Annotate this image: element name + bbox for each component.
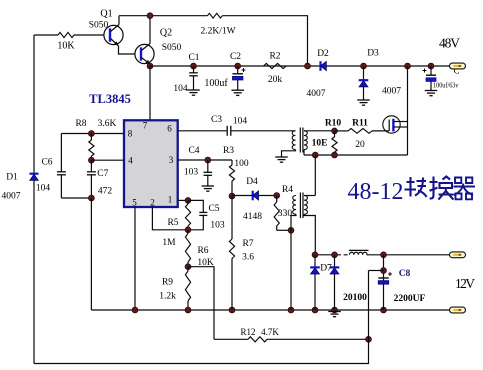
wire MOSFET right down to source line bbox=[407, 122, 409, 156]
svg-text:4: 4 bbox=[128, 156, 133, 166]
capacitor C3 104 bbox=[226, 126, 228, 136]
wire C7 node down to ground bus bbox=[90, 198, 92, 310]
ground D3 bbox=[357, 99, 370, 101]
node pin2 junction bbox=[185, 227, 191, 233]
svg-text:10E: 10E bbox=[312, 139, 328, 149]
capacitor C2 100uf bbox=[237, 66, 239, 74]
wire source line bbox=[304, 154, 408, 156]
ground C2 bbox=[231, 89, 244, 91]
node rail1-Q2 bbox=[147, 13, 153, 19]
svg-text:R2: R2 bbox=[269, 52, 280, 62]
terminal 12V- bbox=[450, 307, 466, 313]
node D7a anode bbox=[312, 307, 318, 313]
wire pin7 supply bbox=[149, 66, 151, 120]
svg-text:D4: D4 bbox=[246, 177, 258, 187]
node R10 top bbox=[332, 128, 338, 134]
wire pin3 (sense) bbox=[178, 159, 232, 161]
node pin4 junction bbox=[89, 157, 95, 163]
wire top rail (Q1/Q2 collectors to R1 to D2 node) bbox=[119, 15, 208, 17]
resistor R1 2.2K/1W bbox=[208, 13, 223, 18]
wire pin6 (out) to C3 bbox=[178, 130, 228, 132]
node C4 junction bbox=[205, 157, 211, 163]
node R6 bottom bbox=[185, 264, 191, 270]
wire ground bus bbox=[91, 309, 451, 311]
svg-text:5: 5 bbox=[132, 198, 137, 208]
svg-text:104: 104 bbox=[233, 117, 248, 127]
svg-text:D2: D2 bbox=[317, 49, 329, 59]
wire C6-C7 bottom bbox=[61, 197, 91, 199]
capacitor C8 2200UF bbox=[378, 277, 389, 279]
svg-text:103: 103 bbox=[184, 168, 199, 178]
node D7b top bbox=[332, 252, 338, 258]
ground cap C bbox=[425, 90, 438, 92]
svg-text:8: 8 bbox=[128, 129, 133, 139]
diode D2 4007 bbox=[319, 61, 321, 71]
resistor R8 3.6K bbox=[90, 134, 92, 141]
wire pin4 (RC) bbox=[91, 159, 124, 161]
node R8 top bbox=[89, 131, 95, 137]
node rail2-Q2 emitter bbox=[147, 63, 153, 69]
svg-text:2200UF: 2200UF bbox=[394, 294, 426, 304]
svg-text:Q1: Q1 bbox=[100, 9, 112, 20]
wire MOSFET drain up to 48V bbox=[407, 66, 409, 122]
transformer T2 secondary winding bbox=[304, 196, 307, 215]
capacitor C7 472 bbox=[90, 160, 92, 172]
svg-text:4007: 4007 bbox=[382, 87, 401, 97]
wire pin2 (FB) bbox=[152, 207, 188, 230]
svg-text:1: 1 bbox=[168, 195, 173, 205]
node pin5 gnd bbox=[132, 307, 138, 313]
node C8 top rail bbox=[381, 252, 387, 258]
wire Q1 base from left corner bbox=[34, 34, 58, 36]
op-amp U1 TL3845 body bbox=[124, 120, 178, 207]
wire Q1 emitter to Q2 base bbox=[119, 46, 136, 54]
wire 12V+ line bbox=[315, 254, 335, 256]
svg-text:100uf: 100uf bbox=[204, 78, 228, 89]
node R4 top bbox=[274, 193, 280, 199]
svg-text:D1: D1 bbox=[6, 173, 18, 183]
resistor R2 20k bbox=[264, 63, 287, 68]
transformer T1 primary winding bbox=[292, 131, 295, 150]
diode D1 4007 bbox=[33, 35, 35, 174]
wire T1 sec top to R10/R11 bbox=[304, 130, 335, 132]
svg-text:3.6K: 3.6K bbox=[98, 119, 117, 129]
svg-text:20k: 20k bbox=[268, 75, 283, 85]
wire T2 return down bbox=[290, 230, 292, 310]
svg-text:S050: S050 bbox=[89, 21, 109, 31]
node MOSFET drain junction bbox=[405, 63, 411, 69]
svg-text:TL3845: TL3845 bbox=[89, 92, 131, 106]
transformer T1 core bbox=[299, 128, 301, 153]
capacitor C4 103 bbox=[207, 160, 209, 172]
svg-text:472: 472 bbox=[98, 187, 113, 197]
node D2 anode junction bbox=[305, 63, 311, 69]
wire R12 riser bbox=[369, 270, 384, 272]
node D3 top bbox=[361, 63, 367, 69]
svg-text:R5: R5 bbox=[167, 218, 178, 228]
node C8 bottom bbox=[381, 307, 387, 313]
svg-text:104: 104 bbox=[173, 84, 188, 94]
svg-text:C2: C2 bbox=[230, 52, 241, 62]
svg-text:104: 104 bbox=[36, 184, 51, 194]
svg-text:103: 103 bbox=[210, 221, 225, 231]
svg-text:2.2K/1W: 2.2K/1W bbox=[200, 27, 235, 37]
svg-text:4007: 4007 bbox=[307, 89, 326, 99]
node R3 bottom / D4 anode bbox=[229, 193, 235, 199]
node R7 bottom bbox=[229, 307, 235, 313]
wire pin8 (Vref) to C6/R8 bbox=[61, 133, 124, 135]
svg-text:4148: 4148 bbox=[243, 212, 262, 222]
svg-text:4007: 4007 bbox=[2, 192, 21, 202]
svg-text:C4: C4 bbox=[188, 146, 199, 156]
node C1 top bbox=[191, 63, 197, 69]
svg-text:C8: C8 bbox=[399, 269, 411, 279]
transistor Q1 bbox=[104, 25, 123, 44]
terminal 48V+ bbox=[450, 63, 466, 69]
svg-text:12V: 12V bbox=[455, 276, 475, 291]
diode D3 4007 bbox=[363, 66, 365, 80]
svg-text:2: 2 bbox=[150, 198, 155, 208]
wire bottom border bbox=[34, 339, 369, 363]
svg-text:100uf/63v: 100uf/63v bbox=[433, 81, 459, 90]
resistor R6 10K bbox=[187, 230, 189, 234]
wire T1-T2 link bbox=[314, 155, 316, 196]
svg-text:C1: C1 bbox=[188, 53, 199, 63]
resistor R11 20 bbox=[335, 130, 349, 132]
node D7a top bbox=[312, 252, 318, 258]
node cap C top bbox=[428, 63, 434, 69]
svg-text:48-12: 48-12 bbox=[348, 179, 404, 205]
wire pin1 (comp) bbox=[178, 199, 188, 201]
svg-text:48V: 48V bbox=[439, 36, 460, 51]
ground C1 bbox=[187, 89, 200, 91]
svg-text:R8: R8 bbox=[75, 119, 86, 129]
node R12 right bbox=[366, 336, 372, 342]
ground bus symbol bbox=[328, 311, 341, 313]
svg-text:3.6: 3.6 bbox=[242, 253, 254, 263]
svg-text:D7: D7 bbox=[320, 264, 332, 274]
node T2 left bottom bbox=[288, 227, 294, 233]
diode D7a bbox=[314, 255, 316, 268]
node T2 return bbox=[288, 307, 294, 313]
capacitor C6 104 bbox=[60, 134, 62, 172]
wire Q2 collector bbox=[149, 16, 151, 44]
resistor R10 10E bbox=[334, 131, 336, 137]
node D7b anode bbox=[332, 307, 338, 313]
transformer T2 primary winding bbox=[293, 196, 296, 215]
resistor R5 1M bbox=[187, 200, 189, 204]
node pin1 junction bbox=[185, 198, 191, 204]
svg-text:R4: R4 bbox=[282, 185, 293, 195]
svg-text:7: 7 bbox=[143, 121, 148, 131]
node C2 top bbox=[235, 63, 241, 69]
svg-text:4.7K: 4.7K bbox=[261, 327, 279, 337]
svg-text:S050: S050 bbox=[162, 43, 182, 53]
svg-text:6: 6 bbox=[167, 124, 172, 134]
label title hanzi huan bbox=[430, 177, 454, 200]
capacitor C1 bbox=[193, 66, 195, 73]
svg-text:3: 3 bbox=[169, 155, 174, 165]
transistor Q2 bbox=[135, 44, 154, 63]
svg-text:330: 330 bbox=[278, 209, 293, 219]
wire C8 branch bbox=[383, 255, 385, 310]
diode D7b 20100 bbox=[334, 255, 336, 268]
svg-text:R6: R6 bbox=[197, 246, 208, 256]
resistor R12 4.7K bbox=[214, 338, 248, 340]
svg-text:R3: R3 bbox=[223, 146, 234, 156]
svg-text:R10: R10 bbox=[325, 119, 342, 129]
resistor R3 100 bbox=[231, 160, 233, 165]
resistor 10K (Q1 base) bbox=[58, 32, 74, 37]
svg-text:C7: C7 bbox=[97, 169, 108, 179]
svg-text:10K: 10K bbox=[57, 41, 75, 52]
wire Q1 collector bbox=[118, 16, 120, 25]
svg-text:20: 20 bbox=[355, 140, 365, 150]
node R10 bottom bbox=[332, 152, 338, 158]
svg-text:20100: 20100 bbox=[343, 293, 367, 303]
svg-text:1M: 1M bbox=[162, 238, 176, 248]
svg-text:1.2k: 1.2k bbox=[159, 292, 176, 302]
transistor Q3 MOSFET bbox=[383, 116, 400, 133]
ground C4 bbox=[202, 185, 215, 187]
svg-text:R11: R11 bbox=[352, 119, 368, 129]
svg-text:C3: C3 bbox=[211, 115, 222, 125]
wire feedback node to R12 bbox=[188, 267, 214, 340]
node R9 bottom bbox=[185, 307, 191, 313]
capacitor C 100uf/63v bbox=[430, 66, 432, 75]
svg-text:R12: R12 bbox=[240, 327, 255, 337]
wire R4 bottom to T2 bbox=[277, 229, 291, 231]
label title hanzi zhuan bbox=[405, 177, 427, 197]
svg-text:C6: C6 bbox=[41, 158, 52, 168]
transformer T1 secondary winding bbox=[304, 131, 307, 150]
node C7 bottom bbox=[89, 195, 95, 201]
node T1 sec bottom bbox=[312, 152, 318, 158]
wire 48V rail bbox=[150, 65, 451, 67]
resistor R7 3.6 bbox=[231, 196, 233, 239]
resistor R4 330 bbox=[276, 196, 278, 203]
capacitor C5 103 bbox=[188, 200, 203, 212]
wire C3 to T1 primary bbox=[231, 130, 296, 132]
inductor L1 bbox=[349, 249, 369, 251]
wire Q2 emitter bbox=[149, 64, 151, 66]
svg-text:100: 100 bbox=[234, 159, 249, 169]
node C8 plus junction bbox=[381, 268, 387, 274]
svg-text:R7: R7 bbox=[242, 239, 253, 249]
label title hanzi qi bbox=[454, 178, 476, 200]
svg-text:C5: C5 bbox=[208, 204, 219, 214]
svg-text:D3: D3 bbox=[367, 49, 379, 59]
svg-text:Q2: Q2 bbox=[160, 28, 172, 39]
transformer T2 core bbox=[299, 193, 301, 219]
svg-text:R9: R9 bbox=[162, 278, 173, 288]
wire pin5 (gnd) down bbox=[134, 207, 136, 310]
diode D4 4148 bbox=[232, 195, 253, 197]
resistor R9 1.2k bbox=[187, 267, 189, 271]
terminal 12V+ bbox=[450, 252, 466, 258]
ground T1 primary bbox=[275, 156, 288, 158]
